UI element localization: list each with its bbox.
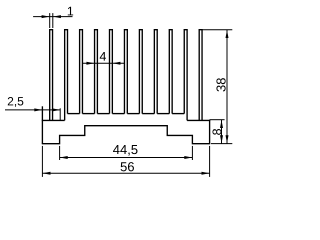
dimension 56: left extension line xyxy=(41,146,43,177)
dimension 1: left extension line xyxy=(49,13,51,28)
dimension 56: value text xyxy=(121,162,134,171)
dimension 8: value text xyxy=(212,129,221,135)
fin 10 xyxy=(184,30,187,121)
dimension 38: bottom arrowhead xyxy=(226,135,229,143)
dimension 38: top extension line xyxy=(202,29,232,31)
dimension 8: bottom arrowhead xyxy=(220,135,223,143)
dimension 8/38: bottom extension line xyxy=(211,143,232,145)
fin 5 xyxy=(110,30,113,114)
dimension 2,5: left arrowhead xyxy=(34,108,42,111)
dimension 4: left arrowhead xyxy=(86,62,94,65)
dimension 2,5: right arrowhead xyxy=(52,108,60,111)
base top surface between fin 9 and fin 10 xyxy=(172,113,184,115)
dimension 44,5: dimension line xyxy=(60,157,193,159)
dimension 38: dimension line xyxy=(226,30,228,144)
dimension 1: right extension line xyxy=(52,13,54,28)
dimension 44,5: left extension line xyxy=(59,146,61,160)
dimension 44,5: right extension line xyxy=(191,146,193,160)
dimension 38: value text xyxy=(216,78,225,91)
dimension 4: right arrowhead xyxy=(112,62,120,65)
base top surface between fin 3 and fin 4 xyxy=(82,113,94,115)
heatsink profile outline: right wall xyxy=(209,120,211,144)
base top surface between fin 5 and fin 6 xyxy=(112,113,124,115)
heatsink profile outline: left wall xyxy=(41,106,43,143)
base top surface between fin 8 and fin 9 xyxy=(157,113,169,115)
left mounting-groove floor xyxy=(42,119,65,121)
dimension 8: top extension line xyxy=(210,119,225,121)
dimension 4: value text xyxy=(100,52,106,61)
dimension 44,5: value text xyxy=(113,145,137,156)
fin 3 xyxy=(80,30,83,114)
base top surface between fin 6 and fin 7 xyxy=(127,113,139,115)
fin 2 xyxy=(65,30,68,121)
base top surface between fin 2 and fin 3 xyxy=(68,113,80,115)
dimension 8: dimension line xyxy=(221,120,223,144)
fin 11 xyxy=(199,30,202,121)
dimension 38: top arrowhead xyxy=(226,30,229,38)
fin 8 xyxy=(154,30,157,114)
fin 4 xyxy=(95,30,98,114)
dimension 2,5: value text xyxy=(8,97,24,107)
dimension 2,5: dimension line xyxy=(5,109,60,111)
dimension 56: left arrowhead xyxy=(43,172,51,175)
dimension 44,5: left arrowhead xyxy=(60,156,68,159)
fin 7 xyxy=(139,30,142,114)
dimension 1: dimension line xyxy=(33,16,72,18)
technical drawing: extruded aluminium heatsink cross-section with dimensions xyxy=(0,0,265,186)
base top surface between fin 7 and fin 8 xyxy=(142,113,154,115)
dimension 8: top arrowhead xyxy=(220,120,223,128)
dimension 4: dimension line xyxy=(82,62,124,64)
base bottom profile with center channel xyxy=(42,126,210,144)
dimension 56: right extension line xyxy=(209,146,211,177)
fin 9 xyxy=(169,30,172,114)
dimension 44,5: right arrowhead xyxy=(184,156,192,159)
dimension 56: right arrowhead xyxy=(202,172,210,175)
dimension 56: dimension line xyxy=(42,172,209,174)
dimension 2,5: right extension line xyxy=(59,108,61,120)
fin 1 xyxy=(50,30,53,121)
dimension 1: left arrowhead xyxy=(42,15,50,18)
base top surface between fin 4 and fin 5 xyxy=(97,113,109,115)
dimension 1: right arrowhead xyxy=(53,15,61,18)
right mounting-groove floor xyxy=(187,119,210,121)
dimension 1: value text xyxy=(68,7,73,16)
fin 6 xyxy=(124,30,127,114)
